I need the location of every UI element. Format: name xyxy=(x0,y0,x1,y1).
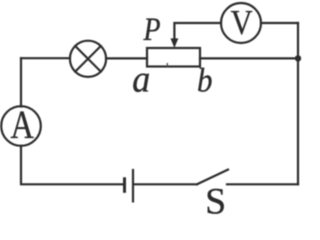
battery cell: positive long plate xyxy=(132,170,134,201)
wire top-left horizontal (node between A and lamp) xyxy=(21,57,70,59)
svg-text:S: S xyxy=(205,182,226,215)
wire ammeter bottom lead / left vertical lower xyxy=(21,146,124,185)
wire switch to right xyxy=(227,183,298,185)
lamp L1 xyxy=(70,41,106,77)
rheostat slider arrow xyxy=(171,38,179,48)
svg-text:V: V xyxy=(231,3,253,42)
wire lamp to rheostat xyxy=(106,57,147,59)
switch S blade (open) xyxy=(197,170,228,185)
voltmeter left lead wire to slider xyxy=(174,23,221,40)
rheostat body midpoint tick xyxy=(166,64,168,67)
svg-text:b: b xyxy=(197,62,213,99)
rheostat P (slide-wire resistor body) xyxy=(147,48,200,67)
wire left vertical upper (ammeter top lead) xyxy=(20,58,22,106)
ammeter A1 body xyxy=(1,106,41,146)
wire battery to switch xyxy=(134,183,197,185)
battery cell: negative short plate xyxy=(123,179,126,192)
svg-text:P: P xyxy=(143,12,161,48)
wire right vertical xyxy=(297,23,299,184)
voltmeter V1 body xyxy=(221,3,261,43)
wire rheostat to right side xyxy=(200,57,298,59)
svg-text:A: A xyxy=(11,102,34,147)
node junction dot (voltmeter tap on right wire) xyxy=(295,55,301,61)
svg-text:a: a xyxy=(132,59,150,101)
voltmeter right lead wire xyxy=(261,22,298,24)
